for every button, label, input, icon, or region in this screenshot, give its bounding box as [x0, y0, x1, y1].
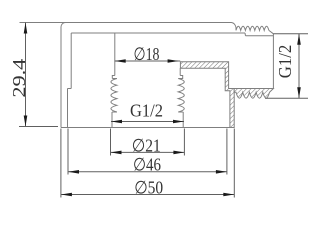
dim 29.4 bottom extension line: [19, 126, 58, 128]
svg-text:∅46: ∅46: [133, 155, 161, 175]
inner left wall upper: [70, 33, 72, 89]
dim G1/2 center line: [111, 121, 184, 123]
svg-text:∅18: ∅18: [134, 44, 160, 64]
arrow G1/2 right: [173, 120, 184, 124]
left thread bottom closure: [112, 111, 117, 113]
female thread left: [111, 79, 117, 113]
socket mouth right wall: [182, 112, 184, 128]
dimension texts: [9, 44, 295, 198]
ext line G1/2 bottom: [265, 97, 308, 99]
dimension lines group: [19, 23, 308, 198]
arrow 29.4 up: [24, 23, 28, 34]
arrow 29.4 down: [24, 116, 28, 127]
inner top line: [71, 32, 245, 34]
female thread right: [178, 79, 184, 113]
dim phi21 line: [111, 151, 185, 153]
arrow G1/2 right top: [297, 34, 301, 45]
arrow phi18 right: [168, 59, 179, 63]
body bottom face: [61, 127, 234, 129]
bore left step: [112, 76, 115, 79]
top face step down to male thread: [232, 23, 237, 28]
arrow G1/2 left: [111, 120, 122, 124]
body left outer edge: [60, 27, 62, 128]
arrow phi18 left: [115, 59, 126, 63]
top-left rounded corner: [61, 23, 66, 28]
svg-text:∅21: ∅21: [132, 136, 161, 156]
ext line phi46 right: [226, 129, 228, 175]
arrow phi21 left: [111, 151, 122, 155]
dim phi46 line: [68, 171, 227, 173]
hatched Z-wall between bore and spigot: [180, 62, 234, 128]
top male thread profile: [236, 26, 269, 30]
arrow phi50 left: [61, 193, 72, 197]
arrow phi50 right: [223, 193, 234, 197]
ext line phi21 right: [183, 129, 185, 156]
hatched bottom male thread band: [234, 89, 273, 99]
spigot bore top line: [246, 35, 274, 37]
arrowheads: [24, 23, 301, 197]
dim phi18 line: [115, 60, 181, 62]
top-right chamfer: [269, 30, 274, 33]
dim phi50 line: [61, 194, 234, 196]
left thread top closure: [112, 78, 117, 80]
svg-text:∅50: ∅50: [134, 178, 163, 198]
body top face with left extension line: [20, 22, 232, 24]
inner left wall jog: [68, 88, 72, 90]
svg-text:29.4: 29.4: [9, 59, 29, 98]
arrow G1/2 right bottom: [297, 87, 301, 98]
arrow phi46 right: [216, 170, 227, 174]
svg-text:G1/2: G1/2: [275, 45, 295, 79]
socket mouth left wall: [111, 112, 113, 128]
ext line G1/2 top: [273, 33, 308, 35]
spigot end face: [272, 34, 274, 89]
svg-text:G1/2: G1/2: [130, 101, 163, 121]
inner step to spigot bore line: [244, 33, 247, 36]
ext line phi46 left: [67, 129, 69, 175]
ext line phi21 left: [110, 129, 112, 156]
dim G1/2 right vertical line: [298, 34, 300, 99]
bore left edge: [114, 33, 116, 76]
ext line phi50 right: [233, 129, 235, 198]
dim 29.4 vertical line: [25, 23, 27, 127]
arrow phi21 right: [173, 151, 184, 155]
inner left wall lower: [67, 89, 69, 128]
ext line phi50 left: [60, 129, 62, 198]
arrow phi46 left: [68, 170, 79, 174]
bore right edge below hatch band: [179, 68, 181, 75]
right thread top closure: [178, 76, 182, 79]
right thread bottom closure: [178, 111, 183, 113]
